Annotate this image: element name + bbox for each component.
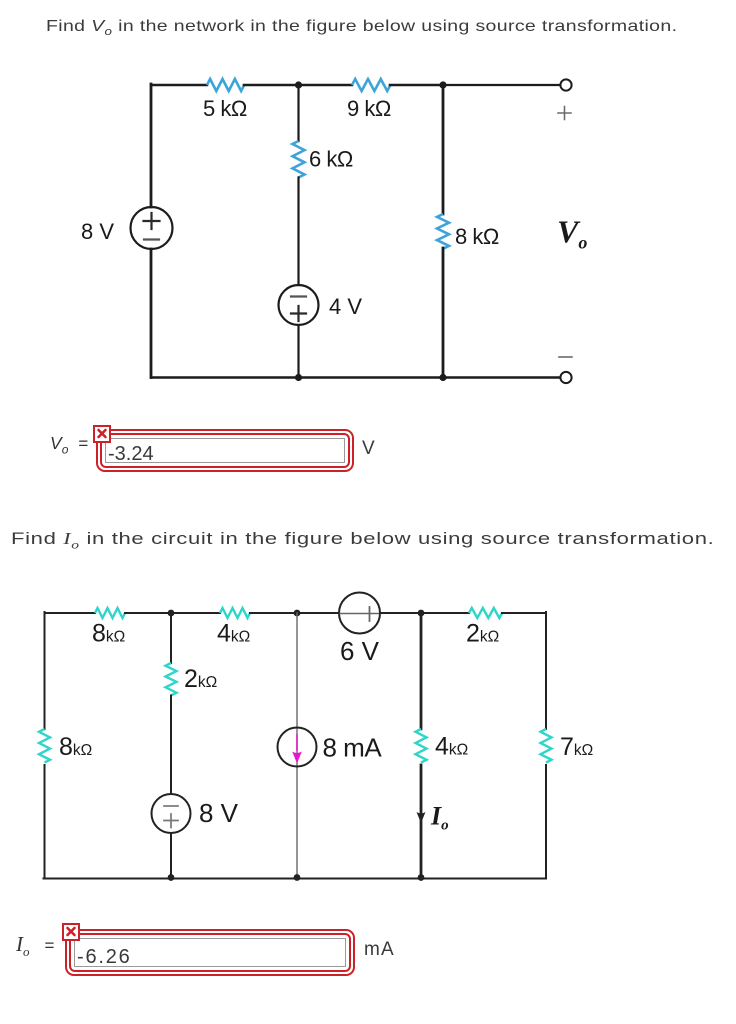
- wire: top rail node A to 9k: [299, 84, 353, 87]
- wire: c2 top rail node1 to 4k: [171, 612, 220, 614]
- wire: c2 right edge upper: [545, 612, 547, 729]
- terminal - open circle: [560, 372, 571, 383]
- wire: c2 top rail left corner to 8k: [45, 612, 96, 614]
- resistor R6 4k horizontal zigzag: [220, 608, 250, 618]
- value label 9 kOhm: [347, 96, 391, 121]
- wire: left branch vertical top: [150, 84, 153, 207]
- wire: c2 top rail node2 to 6V source: [297, 612, 339, 614]
- junction dot bottom middle: [295, 374, 302, 381]
- source V3 6V circle: [339, 593, 380, 634]
- answer row 1: wrong X badge: [93, 425, 111, 443]
- value label 4k: [217, 620, 250, 648]
- answer row 2: wrong X badge: [62, 923, 80, 941]
- wire: c2 top rail 2k to right corner: [502, 612, 546, 614]
- wire: c2 branch1 2k to 8V: [170, 696, 172, 795]
- junction dot bottom right: [439, 374, 446, 381]
- junction dot bottom branch3: [418, 874, 425, 881]
- source V4 8V circle: [152, 794, 191, 833]
- svg-text:Io: Io: [430, 802, 449, 834]
- answer row 2: unit mA: [364, 939, 395, 961]
- wire: c2 branch3 upper thick: [420, 613, 423, 729]
- wire: c2 branch1 node1 to 2k: [170, 613, 172, 663]
- wire: top rail 9k to node B: [390, 84, 443, 87]
- V3 plus mark: [369, 607, 371, 621]
- svg-text:7kΩ: 7kΩ: [560, 733, 593, 761]
- node 3 junction dot: [418, 610, 425, 617]
- svg-text:6 kΩ: 6 kΩ: [309, 147, 353, 172]
- svg-text:4 V: 4 V: [329, 294, 362, 319]
- node 2 junction dot: [294, 610, 301, 617]
- wire: top rail left segment (corner to 5k): [151, 84, 207, 87]
- title question 1: [46, 18, 677, 38]
- answer row 2: Io label: [16, 932, 54, 960]
- junction dot bottom branch1: [168, 874, 175, 881]
- resistor R2 9k horizontal zigzag: [352, 79, 390, 91]
- wire: c2 left edge lower: [44, 765, 46, 879]
- terminal + open circle: [560, 79, 571, 90]
- wire: c2 branch1 8V to bottom: [170, 833, 172, 879]
- value label 4 V: [329, 294, 362, 319]
- source V2 4V circle: [279, 285, 319, 325]
- wire: c2 left edge upper: [44, 612, 46, 729]
- resistor R4 8k vertical zigzag: [437, 214, 449, 249]
- svg-text:8 V: 8 V: [199, 798, 239, 828]
- svg-text:8 V: 8 V: [81, 219, 114, 244]
- value label 2k branch: [184, 665, 217, 693]
- node A junction dot: [295, 81, 302, 88]
- resistor R8 8k vertical zigzag left edge: [39, 729, 50, 763]
- value label 8 kOhm: [455, 224, 499, 249]
- wire: top rail node B to + terminal: [443, 84, 560, 86]
- wire: right branch lower: [442, 248, 445, 378]
- svg-text:4kΩ: 4kΩ: [217, 620, 250, 648]
- minus sign output: [559, 356, 572, 358]
- junction dot bottom branch2: [294, 874, 301, 881]
- V4 plus mark: [164, 814, 178, 828]
- V2 minus mark: [291, 295, 306, 297]
- wire: c2 right edge lower: [545, 765, 547, 879]
- label Vo output: [557, 214, 587, 253]
- resistor R3 6k vertical zigzag: [293, 141, 305, 178]
- node B junction dot: [439, 81, 446, 88]
- source V1 8V circle: [131, 207, 173, 249]
- svg-text:8kΩ: 8kΩ: [92, 620, 125, 648]
- wire: middle branch upper (node A to 6k): [297, 85, 299, 141]
- resistor R10 4k vertical zigzag: [416, 729, 427, 763]
- wire: c2 top rail 8k to node 1: [125, 612, 171, 614]
- wire: right branch upper (node B to 8k): [442, 85, 445, 214]
- svg-text:6 V: 6 V: [340, 636, 380, 666]
- V1 plus mark: [144, 213, 160, 229]
- svg-text:8kΩ: 8kΩ: [59, 733, 92, 761]
- svg-text:Vo: Vo: [557, 214, 587, 253]
- I1 magenta arrow: [292, 735, 302, 764]
- answer row 1: unit V: [362, 438, 375, 460]
- V2 plus mark: [291, 306, 306, 321]
- value label 8 V: [81, 219, 114, 244]
- value label 8 mA: [323, 733, 383, 763]
- wire: left branch vertical bottom: [150, 249, 153, 378]
- wire: middle branch 6k to 4V source: [297, 178, 299, 286]
- value label 8 V c2: [199, 798, 239, 828]
- label Io current: [430, 802, 449, 834]
- wire: c2 bottom rail: [44, 878, 547, 880]
- answer row 1: red double border input box: [96, 429, 354, 472]
- resistor R9 2k vertical zigzag: [166, 663, 177, 695]
- wire: c2 top rail 6V to node 3: [380, 612, 421, 614]
- V4 minus mark: [164, 805, 178, 807]
- value label 8k left: [59, 733, 92, 761]
- node 1 junction dot: [168, 610, 175, 617]
- svg-text:8 mA: 8 mA: [323, 733, 383, 763]
- plus sign output: [558, 107, 571, 120]
- value label 2k top right: [466, 620, 499, 648]
- svg-text:9 kΩ: 9 kΩ: [347, 96, 391, 121]
- resistor R5 8k horizontal zigzag: [95, 608, 125, 618]
- svg-text:5 kΩ: 5 kΩ: [203, 96, 247, 121]
- V1 minus mark: [144, 238, 159, 240]
- value label 7k right: [560, 733, 593, 761]
- wire: c2 top rail 4k to node 2: [250, 612, 297, 614]
- answer row 2: red double border input box: [65, 929, 355, 976]
- value label 4k branch: [435, 733, 468, 761]
- V3 minus mark: [340, 613, 381, 615]
- resistor R1 5k horizontal zigzag: [207, 79, 244, 91]
- value label 8k top left: [92, 620, 125, 648]
- source I1 8mA circle: [278, 728, 317, 767]
- resistor R11 7k vertical zigzag right edge: [541, 729, 552, 763]
- wire: c2 branch2 gray line through current source: [296, 613, 298, 878]
- value label 6 kOhm: [309, 147, 353, 172]
- svg-text:8 kΩ: 8 kΩ: [455, 224, 499, 249]
- wire: top rail 5k to node A: [244, 84, 299, 87]
- resistor R7 2k horizontal zigzag: [469, 608, 502, 618]
- wire: c2 top rail node3 to 2k: [421, 612, 469, 614]
- svg-text:4kΩ: 4kΩ: [435, 733, 468, 761]
- value label 6 V: [340, 636, 380, 666]
- wire: middle branch bottom: [297, 325, 299, 378]
- svg-text:2kΩ: 2kΩ: [466, 620, 499, 648]
- value label 5 kOhm: [203, 96, 247, 121]
- answer row 1: Vo label: [50, 433, 88, 457]
- svg-text:2kΩ: 2kΩ: [184, 665, 217, 693]
- title question 2: [11, 529, 714, 552]
- wire: bottom rail: [151, 376, 560, 378]
- wire: c2 branch3 lower thick with Io arrow: [417, 765, 426, 879]
